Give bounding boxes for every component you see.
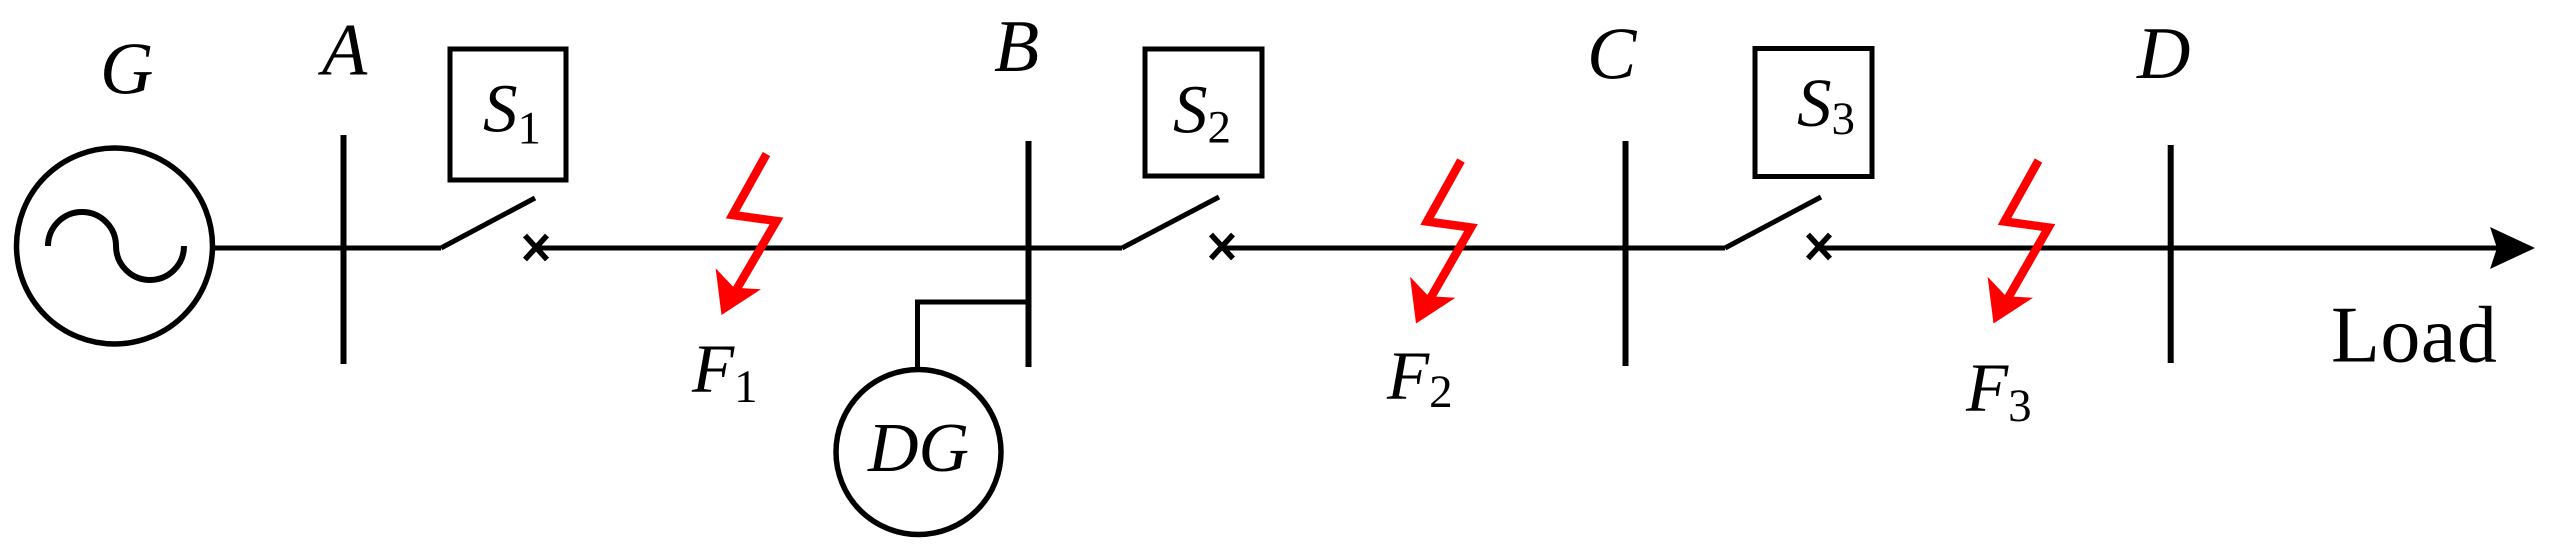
svg-text:C: C	[1587, 14, 1638, 96]
svg-text:F2: F2	[1386, 338, 1453, 418]
svg-text:A: A	[317, 10, 368, 92]
svg-text:DG: DG	[867, 410, 969, 487]
svg-text:B: B	[994, 6, 1039, 88]
svg-text:S1: S1	[483, 71, 541, 155]
svg-text:S3: S3	[1797, 65, 1855, 145]
svg-text:D: D	[2136, 13, 2190, 95]
svg-text:F1: F1	[691, 331, 758, 413]
svg-text:Load: Load	[2331, 292, 2497, 380]
svg-text:G: G	[100, 29, 153, 111]
svg-text:F3: F3	[1965, 350, 2032, 432]
svg-text:S2: S2	[1173, 72, 1231, 154]
